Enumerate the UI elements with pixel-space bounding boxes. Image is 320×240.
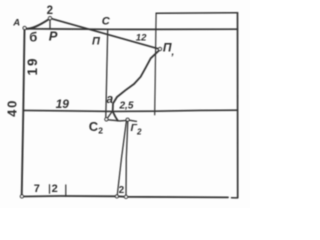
svg-text:19: 19: [25, 56, 40, 75]
node P: [48, 17, 51, 20]
svg-text:П: П: [92, 35, 101, 47]
svg-text:б: б: [29, 30, 37, 45]
wire shoulder diagonal P to P1: [52, 19, 159, 49]
svg-text:А: А: [12, 17, 20, 28]
wire bust line: [23, 110, 237, 111]
wire side seam left branch: [117, 121, 126, 195]
svg-text:19: 19: [56, 97, 70, 111]
svg-text:Г2: Г2: [131, 122, 142, 137]
svg-text:7: 7: [34, 183, 40, 195]
wire bottom hem line right piece after gap: [232, 197, 238, 199]
wire front rect right edge: [237, 13, 239, 198]
wire tick below point P: [49, 20, 51, 29]
svg-text:С2: С2: [89, 119, 103, 136]
wire armhole curve P1 down to dart: [113, 50, 160, 121]
svg-text:Р: Р: [49, 29, 58, 44]
svg-text:2: 2: [52, 183, 58, 195]
svg-text:2,5: 2,5: [119, 100, 134, 111]
node A corner: [23, 26, 26, 29]
node P1: [158, 47, 161, 50]
wire short line right of G2: [129, 120, 136, 121]
node C2: [105, 118, 108, 121]
wire left vertical edge of back piece: [22, 29, 25, 197]
node G2: [126, 118, 129, 121]
tick right of bottom 2: [65, 185, 67, 196]
wire side seam right branch: [126, 121, 128, 195]
wire bottom hem line: [22, 196, 228, 197]
node bottom left corner: [20, 195, 23, 198]
svg-text:а: а: [106, 92, 113, 106]
wire C vertical line: [106, 30, 108, 118]
svg-text:С: С: [102, 16, 111, 28]
wire dart left edge: [108, 112, 112, 118]
svg-text:2: 2: [47, 5, 53, 17]
wire neckline curve A to P: [25, 19, 49, 28]
wire top horizontal construction line: [25, 28, 238, 31]
wire dart bottom line C2 to G2: [108, 120, 126, 121]
svg-text:2: 2: [119, 185, 125, 196]
node bottom seam left: [115, 195, 118, 198]
node bottom seam right: [124, 195, 127, 198]
wire front rect top edge: [156, 12, 237, 15]
svg-text:40: 40: [5, 99, 20, 117]
svg-text:П,: П,: [163, 41, 174, 58]
tick left of bottom 2: [49, 185, 51, 194]
svg-text:12: 12: [136, 32, 147, 43]
wire front rect left vertical: [155, 13, 156, 115]
